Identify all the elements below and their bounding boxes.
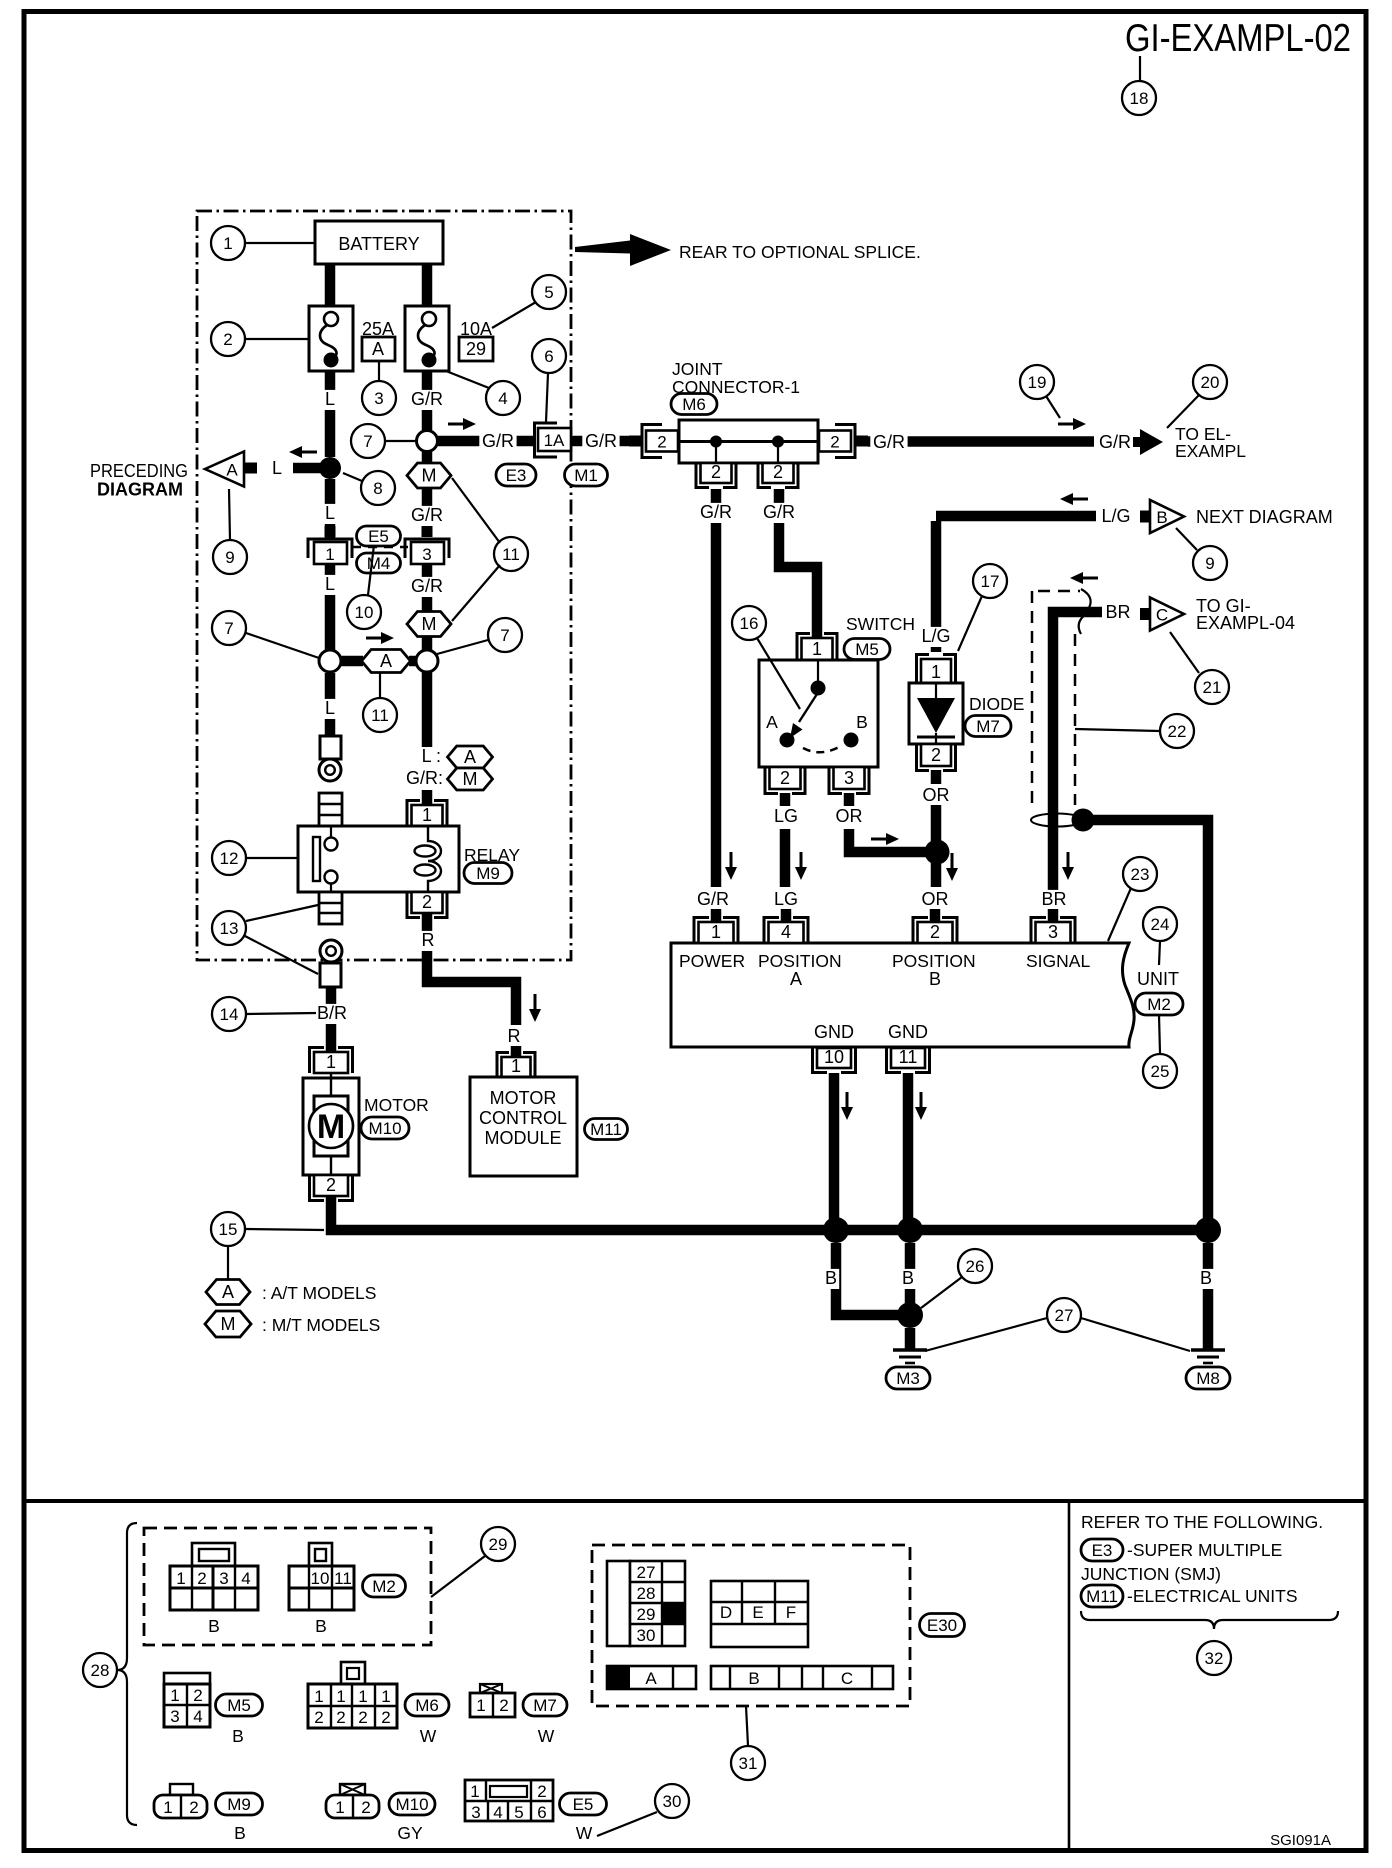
connector oval M7 face bbox=[523, 1694, 567, 1716]
leader box A to callout 3 bbox=[378, 361, 380, 381]
svg-text:31: 31 bbox=[739, 1754, 758, 1773]
callout 28 bbox=[83, 1653, 117, 1687]
leader callout 7 to splice bbox=[246, 633, 319, 658]
connector oval M11 bbox=[585, 1119, 628, 1140]
callout 7 top bbox=[351, 424, 385, 458]
unit pin 10 bbox=[813, 1047, 856, 1073]
joint connector left pin 2 bbox=[629, 425, 678, 458]
joint connector right pin 2 bbox=[819, 425, 868, 458]
svg-text:A: A bbox=[645, 1669, 657, 1688]
svg-text:BR: BR bbox=[1041, 889, 1066, 909]
svg-text:9: 9 bbox=[1205, 554, 1214, 573]
svg-text:M10: M10 bbox=[368, 1119, 401, 1138]
callout 23 bbox=[1123, 857, 1157, 891]
leader callout 29 to box bbox=[431, 1556, 485, 1597]
M2 dashed box bbox=[144, 1528, 431, 1645]
svg-text:2: 2 bbox=[336, 1708, 345, 1727]
wire label L 4 bbox=[322, 698, 338, 719]
wire B/R to motor bbox=[326, 987, 337, 1052]
diode pin 1 bbox=[917, 655, 956, 684]
leader callout 5 to 10A bbox=[492, 302, 536, 328]
motor control module M11 box bbox=[470, 1077, 577, 1176]
svg-text:17: 17 bbox=[981, 572, 1000, 591]
wire label L 2 bbox=[322, 503, 338, 524]
unit pin 4 bbox=[764, 918, 808, 944]
svg-text:A: A bbox=[464, 747, 476, 767]
svg-text:E3: E3 bbox=[1092, 1541, 1113, 1560]
svg-text:EXAMPL-04: EXAMPL-04 bbox=[1196, 613, 1295, 633]
callout 8 bbox=[361, 471, 395, 505]
svg-text:E3: E3 bbox=[506, 466, 527, 485]
callout 1 bbox=[211, 226, 245, 260]
svg-text:L :: L : bbox=[422, 746, 441, 766]
text JUNCTION SMJ bbox=[1081, 1564, 1221, 1584]
svg-text:POSITION: POSITION bbox=[892, 951, 976, 971]
wire label L/G at diode bbox=[917, 626, 954, 647]
legend hexagon A bbox=[206, 1280, 376, 1305]
diode pin 2 bbox=[917, 744, 956, 771]
wire G/R out to EL-EXAMPL bbox=[868, 436, 1094, 447]
splice ring 7L bbox=[319, 650, 341, 672]
wire label LG 1 bbox=[773, 806, 800, 827]
leader callout 30 to W bbox=[597, 1812, 657, 1836]
svg-text:7: 7 bbox=[224, 619, 233, 638]
svg-text:11: 11 bbox=[334, 1569, 352, 1588]
callout 27 bbox=[1047, 1298, 1081, 1332]
label DIODE bbox=[969, 694, 1024, 714]
shield junction dot bbox=[1072, 809, 1095, 832]
svg-text:M1: M1 bbox=[574, 466, 598, 485]
label G/R: with hexagon M bbox=[406, 768, 493, 790]
svg-text:E5: E5 bbox=[368, 527, 389, 546]
wire G/R JC to switch bbox=[779, 489, 817, 640]
svg-text:A: A bbox=[790, 969, 802, 989]
leader callout 15 to bus bbox=[245, 1229, 324, 1230]
label POSITION A bbox=[758, 951, 842, 989]
svg-text:29: 29 bbox=[637, 1605, 656, 1624]
switch arm bbox=[790, 694, 817, 738]
svg-text:30: 30 bbox=[663, 1792, 682, 1811]
svg-text:JOINT: JOINT bbox=[672, 359, 723, 379]
switch pin 2 bbox=[765, 767, 805, 794]
wire OR below switch bbox=[844, 793, 855, 806]
svg-text:1: 1 bbox=[812, 639, 822, 659]
svg-text:OR: OR bbox=[923, 785, 950, 805]
leader callout 24 to UNIT bbox=[1159, 941, 1160, 965]
callout 21 bbox=[1195, 670, 1229, 704]
svg-text:28: 28 bbox=[637, 1584, 656, 1603]
svg-text:B/R: B/R bbox=[317, 1003, 347, 1023]
leader callout 19 to arrow bbox=[1046, 396, 1060, 418]
svg-text:2: 2 bbox=[189, 1798, 198, 1817]
svg-text:G/R: G/R bbox=[411, 389, 443, 409]
svg-text:LG: LG bbox=[774, 806, 798, 826]
svg-text:10: 10 bbox=[311, 1569, 330, 1588]
callout 9 left bbox=[213, 540, 247, 574]
callout 17 bbox=[973, 564, 1007, 598]
svg-text:M2: M2 bbox=[1147, 995, 1171, 1014]
svg-text:3: 3 bbox=[170, 1707, 179, 1726]
joint connector bottom pin 2a bbox=[696, 462, 736, 488]
connector face M7 bbox=[470, 1684, 555, 1746]
leader callout 7R to splice bbox=[437, 640, 488, 654]
connector E5/M4 pin 1 bbox=[308, 526, 352, 564]
svg-text:OR: OR bbox=[836, 806, 863, 826]
connector oval M7 top bbox=[965, 716, 1011, 737]
wire battery to fusible link R bbox=[422, 264, 433, 307]
callout 2 bbox=[211, 322, 245, 356]
E30 grid DEF bbox=[711, 1581, 808, 1647]
svg-text:GI-EXAMPL-02: GI-EXAMPL-02 bbox=[1125, 17, 1351, 60]
svg-text:GY: GY bbox=[397, 1823, 423, 1843]
dashed link E5 connectors bbox=[352, 546, 408, 549]
text ELECTRICAL UNITS bbox=[1127, 1586, 1298, 1606]
shield dashed left bbox=[1031, 591, 1034, 807]
connector face M6 bbox=[308, 1662, 437, 1746]
wire L/G down to diode bbox=[931, 521, 942, 652]
svg-text:B: B bbox=[902, 1268, 914, 1288]
callout 22 bbox=[1160, 714, 1194, 748]
wire L splice to connector E5-1 bbox=[325, 479, 336, 540]
svg-text:M7: M7 bbox=[976, 717, 1000, 736]
ring terminal lower bbox=[320, 940, 342, 962]
label RELAY bbox=[464, 845, 520, 865]
off-page B next diagram bbox=[1140, 500, 1333, 533]
MCM pin 1 bbox=[497, 1053, 535, 1078]
relay contact bbox=[313, 826, 338, 892]
wire shield drain to ground bus bbox=[1092, 820, 1208, 1230]
wire label B/R bbox=[313, 1003, 350, 1024]
wire OR below diode bbox=[931, 770, 942, 784]
connector oval M6 face bbox=[405, 1694, 449, 1716]
wire G/R JC to unit pin1 bbox=[711, 489, 722, 887]
svg-text:R: R bbox=[508, 1026, 521, 1046]
leader callout 13 to square bbox=[245, 936, 318, 974]
callout 7 lower-left bbox=[212, 611, 246, 645]
svg-text:1: 1 bbox=[163, 1798, 172, 1817]
relay coil bbox=[415, 826, 442, 892]
svg-text:1: 1 bbox=[358, 1687, 367, 1706]
unit M2 box bbox=[671, 943, 1134, 1047]
leader callout 17 to diode bbox=[958, 596, 982, 651]
svg-text:E: E bbox=[752, 1603, 763, 1622]
svg-text:14: 14 bbox=[220, 1005, 239, 1024]
svg-text:19: 19 bbox=[1028, 373, 1047, 392]
callout 14 bbox=[212, 997, 246, 1031]
svg-text:B: B bbox=[1156, 508, 1167, 527]
connector oval M10 face bbox=[389, 1793, 435, 1815]
svg-text:1: 1 bbox=[470, 1782, 479, 1801]
connector oval M11 refer bbox=[1081, 1585, 1123, 1607]
svg-text:12: 12 bbox=[220, 849, 239, 868]
svg-text:9: 9 bbox=[225, 548, 234, 567]
svg-text:13: 13 bbox=[220, 919, 239, 938]
connector oval E5 bbox=[357, 526, 401, 546]
arrow REAR TO OPTIONAL SPLICE bbox=[575, 234, 921, 266]
ground bus wire bbox=[331, 1196, 1208, 1230]
svg-text:NEXT DIAGRAM: NEXT DIAGRAM bbox=[1196, 507, 1333, 527]
svg-text:M2: M2 bbox=[372, 1577, 396, 1596]
svg-text:BR: BR bbox=[1105, 602, 1130, 622]
svg-text:L: L bbox=[325, 503, 335, 523]
svg-text:DIODE: DIODE bbox=[969, 694, 1024, 714]
leader E30 box to callout 31 bbox=[746, 1706, 748, 1746]
wire label OR at unit bbox=[922, 889, 949, 910]
svg-text:2: 2 bbox=[197, 1569, 206, 1588]
wire into relay pin 1 bbox=[422, 790, 433, 806]
svg-text:B: B bbox=[856, 712, 868, 732]
wire label B a bbox=[823, 1268, 839, 1289]
wire into unit pin 3 bbox=[1048, 909, 1059, 923]
wire L/G to next diagram bbox=[936, 511, 1096, 522]
callout 25 bbox=[1143, 1054, 1177, 1088]
svg-text:L: L bbox=[325, 389, 335, 409]
svg-text:MOTOR: MOTOR bbox=[490, 1088, 557, 1108]
svg-text:A: A bbox=[372, 339, 384, 359]
brace refer section bbox=[1081, 1611, 1338, 1629]
relay R1 box bbox=[298, 826, 459, 892]
leader hexagon A to callout 11 bbox=[379, 673, 381, 698]
svg-text:11: 11 bbox=[899, 1047, 918, 1067]
leader callout 26 to dot bbox=[921, 1277, 962, 1308]
fusible link FL2 bbox=[405, 306, 449, 371]
joint connector body bbox=[679, 420, 818, 463]
wire LG below switch bbox=[780, 793, 791, 806]
arrow on BR wire bbox=[1070, 572, 1098, 584]
arrow on L/G wire bbox=[1060, 493, 1088, 505]
wire BR corner bbox=[1053, 612, 1102, 891]
connector oval M1 bbox=[565, 464, 608, 486]
splice ring 7R bbox=[416, 650, 438, 672]
connector face E5 bbox=[465, 1780, 593, 1843]
SMJ connector 1A bbox=[535, 423, 572, 457]
shield dashed right bbox=[1074, 634, 1077, 805]
svg-text:E30: E30 bbox=[927, 1616, 957, 1635]
svg-text:C: C bbox=[1156, 606, 1168, 625]
svg-text:M6: M6 bbox=[682, 395, 706, 414]
svg-text:M3: M3 bbox=[896, 1369, 920, 1388]
switch pin 1 bbox=[797, 634, 837, 661]
svg-text:BATTERY: BATTERY bbox=[338, 234, 419, 254]
svg-text:6: 6 bbox=[544, 347, 553, 366]
motor M10 body bbox=[303, 1073, 359, 1180]
splice S8 dot bbox=[319, 457, 341, 479]
connector oval M4 bbox=[357, 553, 401, 573]
arrow down OR junction bbox=[946, 853, 958, 881]
inline terminal square upper bbox=[320, 736, 341, 759]
wire 1A to joint connector bbox=[571, 436, 641, 447]
leader callout 27 to M8 bbox=[1081, 1318, 1190, 1351]
arrow to preceding diagram bbox=[289, 446, 317, 458]
callout 32 bbox=[1197, 1641, 1231, 1675]
switch arc dashed bbox=[803, 747, 839, 752]
svg-text:B: B bbox=[748, 1669, 759, 1688]
connector face M2-B bbox=[289, 1543, 354, 1636]
connector face M2-A bbox=[170, 1543, 258, 1636]
connector face M5 bbox=[164, 1673, 244, 1746]
svg-text:R: R bbox=[422, 930, 435, 950]
wire hexagon A to splice bbox=[409, 656, 417, 667]
hexagon A models row bbox=[362, 650, 411, 673]
switch common contact bbox=[811, 660, 826, 696]
svg-text:3: 3 bbox=[422, 545, 431, 564]
svg-text:M: M bbox=[422, 614, 437, 634]
arrow on G/R feed bbox=[448, 418, 476, 430]
svg-text:24: 24 bbox=[1151, 915, 1170, 934]
svg-text:REFER TO THE FOLLOWING.: REFER TO THE FOLLOWING. bbox=[1081, 1512, 1323, 1532]
wire label G/R 2 bbox=[479, 431, 516, 452]
leader triangle A to callout 9 bbox=[229, 489, 230, 540]
wire OR diode to junction bbox=[931, 805, 942, 847]
callout 5 bbox=[532, 275, 566, 309]
svg-text:26: 26 bbox=[966, 1257, 985, 1276]
leader callout 14 to B/R bbox=[246, 1013, 316, 1014]
wire unit pin11 to bus bbox=[903, 1073, 914, 1230]
svg-text:M11: M11 bbox=[1086, 1587, 1118, 1606]
svg-text:21: 21 bbox=[1203, 678, 1222, 697]
leader callout 7T to splice bbox=[385, 440, 416, 442]
svg-text:M7: M7 bbox=[533, 1696, 557, 1715]
svg-text:2: 2 bbox=[361, 1798, 370, 1817]
svg-text:G/R: G/R bbox=[700, 502, 732, 522]
svg-text:2: 2 bbox=[780, 768, 790, 788]
svg-text:M5: M5 bbox=[227, 1696, 251, 1715]
leader callout 15 to legend bbox=[227, 1246, 229, 1280]
hexagon M 1 bbox=[407, 463, 451, 488]
leader callout 21 to triangle C bbox=[1170, 632, 1199, 673]
wire label G/R at unit pin1 bbox=[694, 889, 731, 910]
wire label OR 1 bbox=[836, 806, 863, 827]
junction dot bus B bbox=[897, 1217, 923, 1243]
bolted strip connector lower bbox=[319, 892, 342, 924]
switch contact B bbox=[844, 712, 868, 748]
svg-text:11: 11 bbox=[371, 706, 389, 725]
wire label G/R 3 bbox=[582, 431, 619, 452]
motor pin 2 bbox=[310, 1175, 353, 1201]
label L: with hexagon A bbox=[422, 746, 493, 768]
wire into unit pin 2 bbox=[930, 909, 941, 923]
svg-text:M5: M5 bbox=[855, 640, 879, 659]
wire label G/R 4 bbox=[408, 505, 445, 526]
wire label G/R 1 bbox=[408, 389, 445, 410]
off-page C to GI-EXAMPL-04 bbox=[1140, 596, 1295, 633]
relay pin 2 bbox=[407, 892, 447, 918]
svg-text:1: 1 bbox=[476, 1696, 485, 1715]
svg-text:W: W bbox=[576, 1823, 593, 1843]
svg-text:4: 4 bbox=[241, 1569, 250, 1588]
wire B ground A bbox=[836, 1243, 898, 1315]
wire LG to unit pin4 bbox=[780, 829, 791, 887]
svg-text:M: M bbox=[463, 769, 478, 789]
leader callout 12 to relay bbox=[246, 857, 298, 859]
fusible link FL1 bbox=[309, 306, 353, 371]
svg-text:B: B bbox=[208, 1616, 220, 1636]
ground oval M3 bbox=[886, 1367, 930, 1389]
joint connector bottom pin 2b bbox=[758, 462, 798, 488]
svg-text:A: A bbox=[380, 651, 392, 671]
leader callout 4 to FL2 bbox=[446, 371, 489, 388]
leader callout 16 to arm bbox=[757, 638, 800, 709]
svg-text:2: 2 bbox=[422, 892, 432, 912]
junction dot OR bbox=[925, 840, 950, 865]
wire label R 2 bbox=[506, 1026, 522, 1047]
svg-text:28: 28 bbox=[91, 1661, 110, 1680]
wire G/R below connector 3 bbox=[422, 564, 433, 651]
svg-text:LG: LG bbox=[774, 889, 798, 909]
svg-text:1: 1 bbox=[325, 545, 334, 564]
svg-text:32: 32 bbox=[1205, 1649, 1224, 1668]
leader callout 9R to triangle B bbox=[1176, 528, 1197, 550]
arrow on EL wire bbox=[1058, 418, 1086, 430]
svg-text:1: 1 bbox=[326, 1052, 336, 1072]
wire label B b bbox=[900, 1268, 916, 1289]
callout 29 bbox=[481, 1527, 515, 1561]
svg-text:23: 23 bbox=[1131, 865, 1150, 884]
E30 strip A bbox=[607, 1666, 696, 1689]
leader callout 22 to shield bbox=[1075, 729, 1160, 731]
connector oval M5 top bbox=[844, 639, 890, 660]
label 10A bbox=[460, 319, 492, 339]
leader callout 2 to FL1 bbox=[245, 338, 309, 340]
svg-text:2: 2 bbox=[657, 433, 666, 452]
label POSITION B bbox=[892, 951, 976, 989]
leader callout 8 to splice bbox=[343, 473, 362, 481]
wire R relay to MCM bbox=[427, 913, 516, 1025]
wire G/R to M hexagon bbox=[422, 452, 433, 537]
svg-text:M10: M10 bbox=[395, 1795, 428, 1814]
connector oval M2 face bbox=[363, 1575, 406, 1597]
leader M2 to callout 25 bbox=[1159, 1015, 1160, 1053]
callout 16 bbox=[732, 606, 766, 640]
wire L below connector 1 bbox=[325, 564, 336, 651]
connector oval E5 face bbox=[560, 1793, 607, 1815]
arrow down unit pin1 feed bbox=[725, 852, 737, 880]
svg-text:E5: E5 bbox=[573, 1795, 594, 1814]
leader callout 13 to strip bbox=[246, 905, 318, 921]
fuse number box 29 bbox=[459, 337, 493, 361]
svg-text:GND: GND bbox=[888, 1022, 928, 1042]
wire label LG 2 bbox=[773, 889, 800, 910]
svg-text:29: 29 bbox=[489, 1535, 508, 1554]
callout 20 bbox=[1193, 365, 1227, 399]
wire label OR diode bbox=[923, 785, 950, 806]
leader callout 20 to arrow bbox=[1167, 395, 1199, 428]
wire label BR at C bbox=[1105, 602, 1130, 622]
svg-text:1: 1 bbox=[314, 1687, 323, 1706]
leader callout 1 to battery bbox=[245, 242, 315, 244]
connector oval M6 top bbox=[671, 394, 717, 415]
figure code SGI091A bbox=[1270, 1832, 1331, 1849]
connector E5/M4 pin 3 bbox=[405, 526, 449, 564]
svg-text:G/R: G/R bbox=[585, 431, 617, 451]
callout 31 bbox=[731, 1746, 765, 1780]
svg-text:7: 7 bbox=[363, 432, 372, 451]
svg-text:B: B bbox=[232, 1726, 244, 1746]
ring terminal upper bbox=[319, 759, 341, 781]
svg-text:GND: GND bbox=[814, 1022, 854, 1042]
callout 6 bbox=[532, 339, 566, 373]
wire label BR at unit bbox=[1041, 889, 1068, 910]
label SIGNAL bbox=[1026, 951, 1090, 971]
svg-text:1A: 1A bbox=[544, 431, 565, 450]
svg-text:5: 5 bbox=[544, 283, 553, 302]
svg-text:5: 5 bbox=[514, 1803, 523, 1822]
callout 11 right bbox=[494, 537, 528, 571]
svg-text:3: 3 bbox=[471, 1803, 480, 1822]
relay pin 1 bbox=[407, 801, 447, 827]
unit pin 1 bbox=[694, 918, 738, 944]
callout 19 bbox=[1020, 365, 1054, 399]
